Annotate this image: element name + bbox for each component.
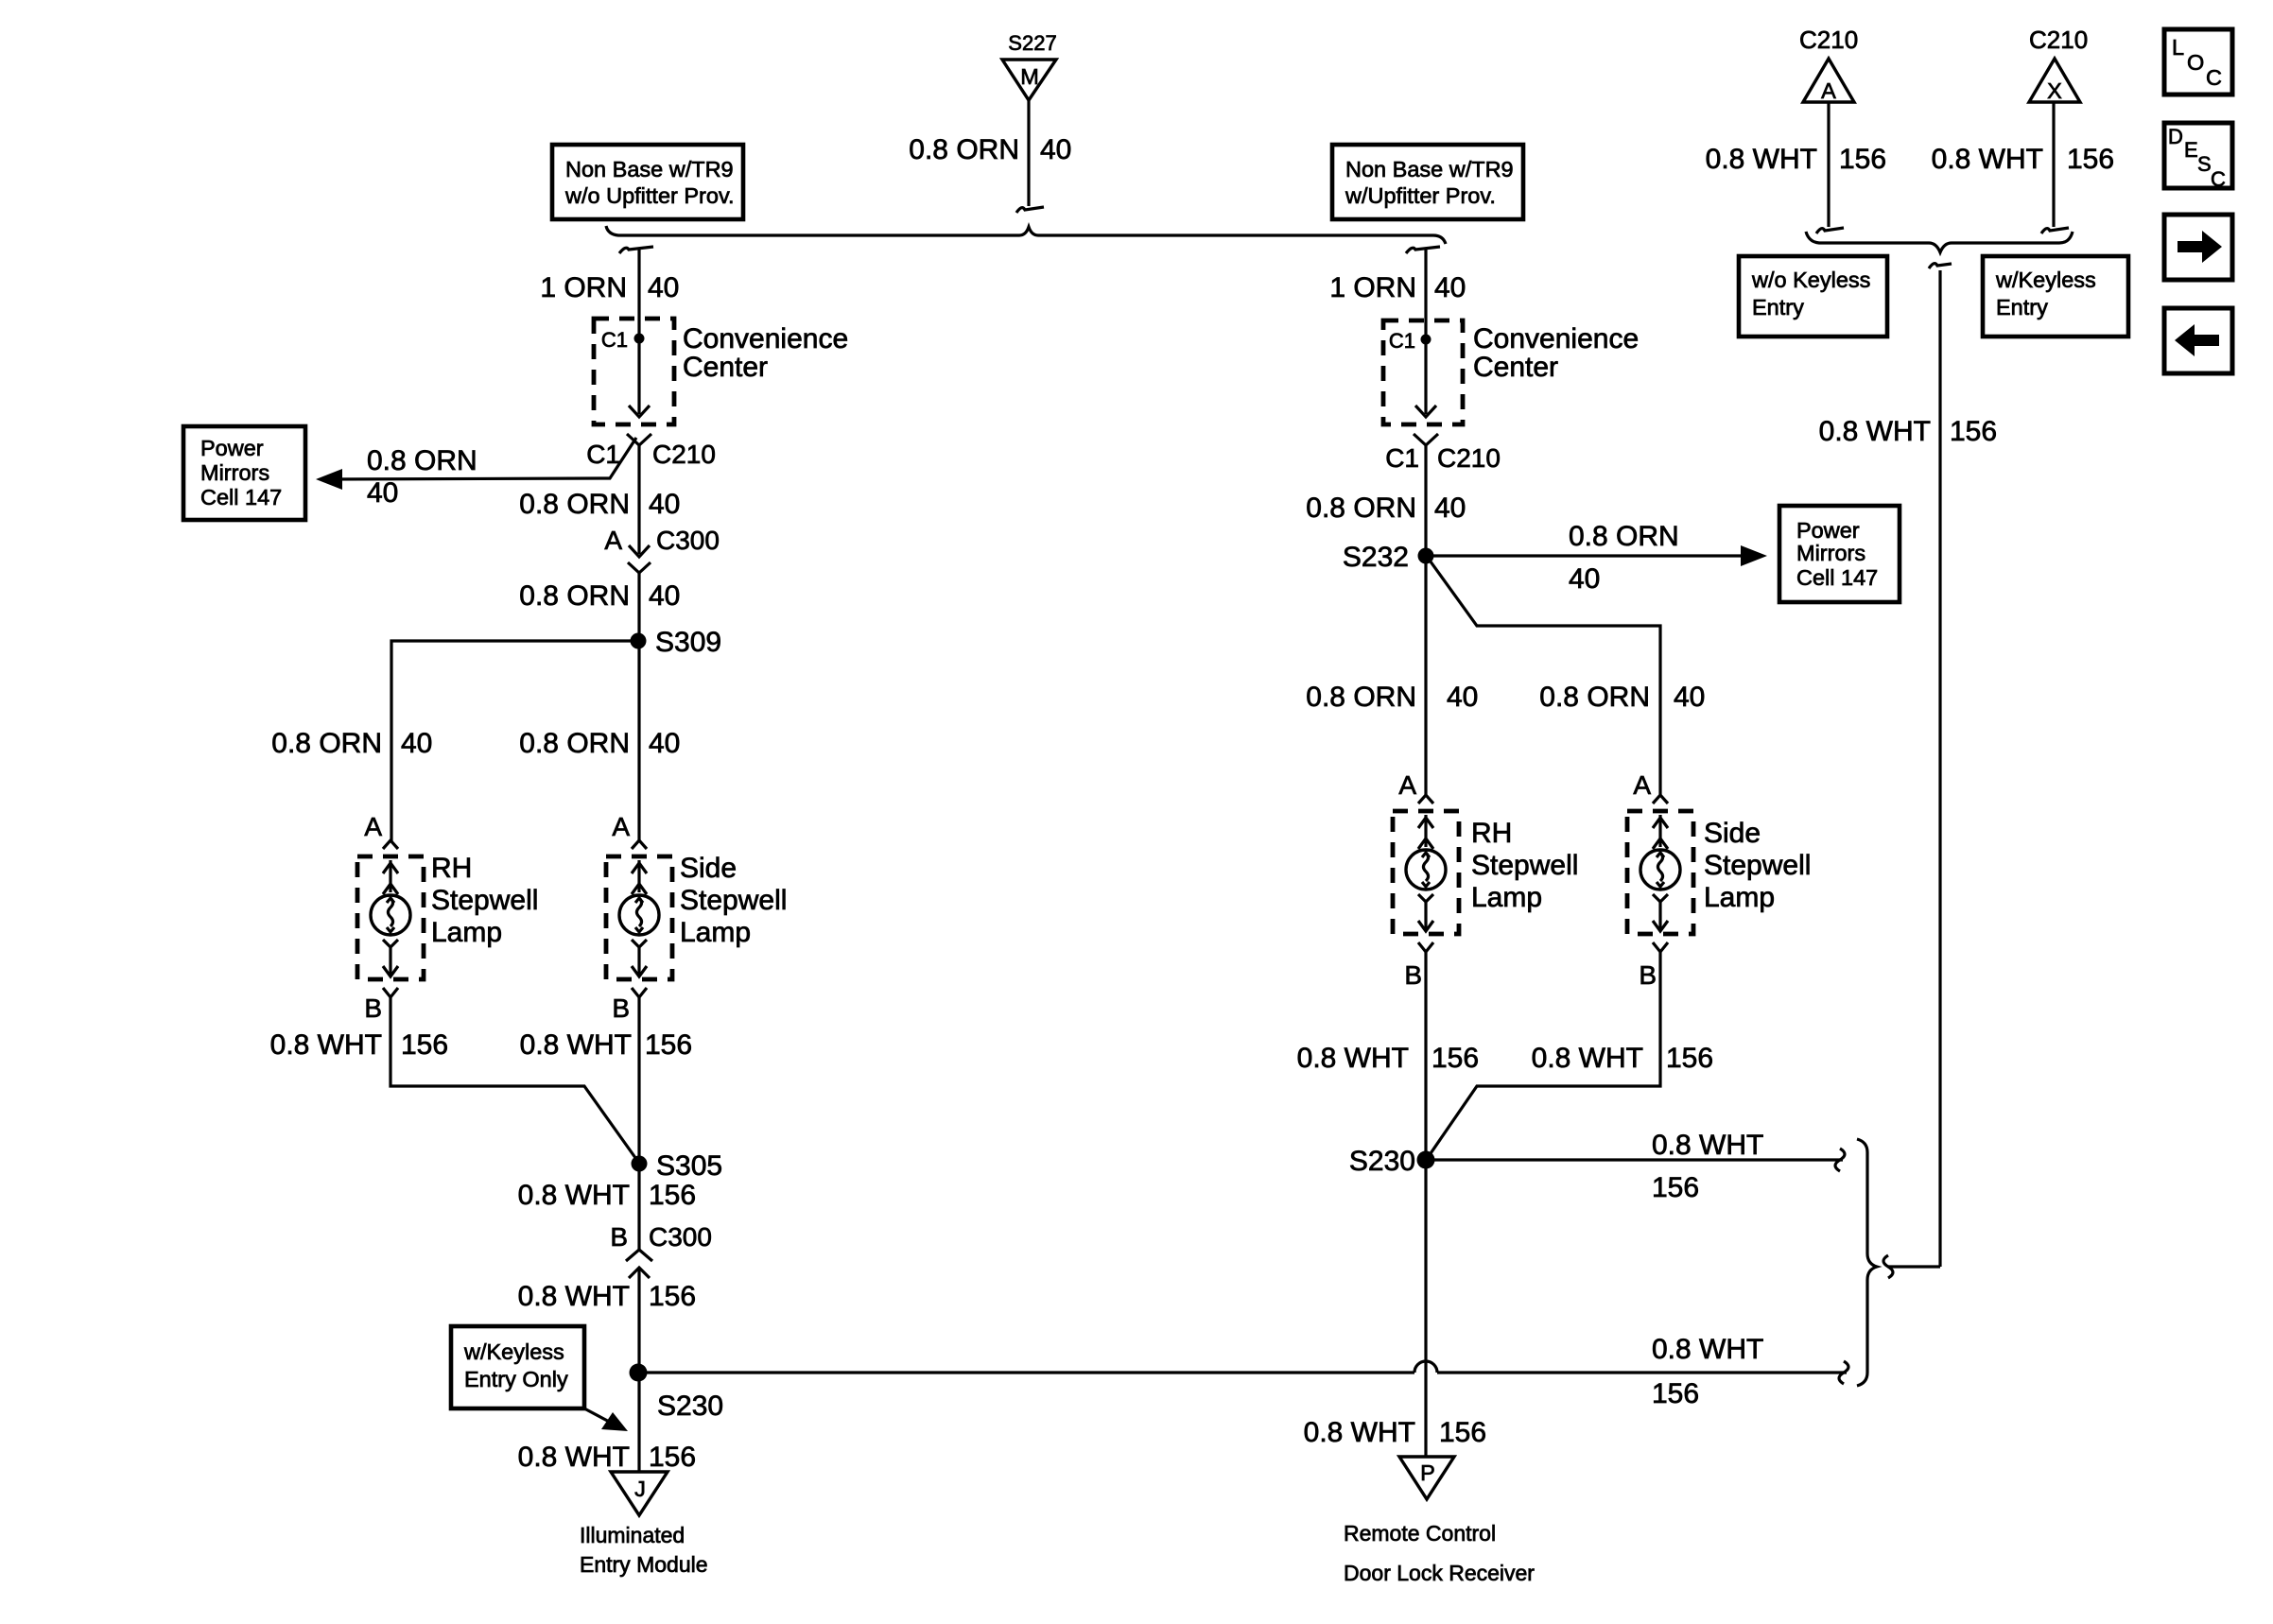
wire label 1 ORN 40 (right) bbox=[1329, 272, 1466, 303]
svg-text:0.8 WHT: 0.8 WHT bbox=[1532, 1043, 1643, 1074]
svg-text:S309: S309 bbox=[655, 627, 721, 658]
svg-text:Lamp: Lamp bbox=[1471, 882, 1542, 913]
svg-text:40: 40 bbox=[401, 728, 432, 759]
label Remote Control Door Lock Receiver bbox=[1344, 1521, 1535, 1585]
lamp RH Stepwell Lamp (left) bbox=[357, 856, 424, 979]
wire label 0.8 WHT 156 bbox=[518, 1180, 696, 1211]
wire from S230 right to brace bbox=[1426, 1149, 1845, 1171]
svg-text:Door Lock Receiver: Door Lock Receiver bbox=[1344, 1561, 1535, 1585]
option box w/Keyless Entry bbox=[1983, 256, 2128, 337]
wire label 0.8 WHT 156 bbox=[518, 1281, 696, 1312]
wire: S309 horizontal to left sub-branch corner bbox=[391, 641, 638, 841]
svg-text:0.8 ORN: 0.8 ORN bbox=[909, 134, 1019, 165]
wire: left branch 1 ORN down to convenience center bbox=[637, 250, 640, 320]
box Power Mirrors Cell 147 (right) bbox=[1779, 506, 1900, 602]
svg-text:156: 156 bbox=[1439, 1417, 1486, 1448]
svg-text:Mirrors: Mirrors bbox=[1796, 541, 1865, 565]
svg-text:Stepwell: Stepwell bbox=[431, 885, 538, 916]
svg-text:156: 156 bbox=[1950, 416, 1997, 447]
svg-text:J: J bbox=[634, 1477, 646, 1501]
svg-text:0.8 WHT: 0.8 WHT bbox=[518, 1281, 630, 1312]
svg-text:Lamp: Lamp bbox=[680, 917, 751, 948]
svg-text:P: P bbox=[1420, 1460, 1435, 1485]
svg-text:0.8 WHT: 0.8 WHT bbox=[1304, 1417, 1415, 1448]
wire label 0.8 WHT / 156 (upper right run) bbox=[1652, 1130, 1763, 1203]
branch wire to Power Mirrors (left) with arrowhead bbox=[316, 438, 636, 490]
component label Convenience Center (right) bbox=[1473, 323, 1639, 383]
svg-text:A: A bbox=[612, 812, 630, 841]
svg-text:0.8 WHT: 0.8 WHT bbox=[518, 1442, 630, 1473]
svg-text:40: 40 bbox=[1040, 134, 1071, 165]
svg-text:Remote Control: Remote Control bbox=[1344, 1521, 1496, 1546]
wire label 0.8 ORN / 40 (left power mirrors) bbox=[367, 445, 477, 509]
svg-text:Center: Center bbox=[683, 352, 768, 383]
reference icon box DESC bbox=[2164, 123, 2232, 191]
svg-text:A: A bbox=[1633, 770, 1651, 800]
svg-text:Cell 147: Cell 147 bbox=[1796, 565, 1878, 590]
label Illuminated Entry Module bbox=[580, 1523, 708, 1577]
svg-text:w/Keyless: w/Keyless bbox=[463, 1339, 564, 1364]
wire label 1 ORN 40 bbox=[540, 272, 679, 303]
svg-text:40: 40 bbox=[367, 477, 398, 509]
svg-text:Entry Module: Entry Module bbox=[580, 1552, 708, 1577]
right branch crimp symbol bbox=[1406, 247, 1440, 253]
svg-text:40: 40 bbox=[1447, 682, 1478, 713]
wire: C300 down to S230 bbox=[637, 1268, 640, 1373]
connector C1 / C210 (left) bbox=[586, 434, 716, 469]
svg-text:C: C bbox=[2211, 167, 2226, 191]
wire label 0.8 WHT 156 (left main) bbox=[520, 1029, 692, 1061]
svg-text:0.8 ORN: 0.8 ORN bbox=[1569, 521, 1679, 552]
svg-text:0.8 WHT: 0.8 WHT bbox=[1706, 144, 1817, 175]
svg-text:Power: Power bbox=[200, 436, 264, 460]
svg-text:40: 40 bbox=[648, 272, 679, 303]
svg-text:0.8 ORN: 0.8 ORN bbox=[519, 580, 630, 612]
pin A (side stepwell lamp right) bbox=[1633, 770, 1668, 803]
label Side Stepwell Lamp (left) bbox=[680, 853, 787, 948]
connector C1 / C210 (right) bbox=[1385, 434, 1501, 473]
svg-text:w/Upfitter Prov.: w/Upfitter Prov. bbox=[1345, 183, 1496, 208]
svg-text:0.8 WHT: 0.8 WHT bbox=[520, 1029, 632, 1061]
svg-text:40: 40 bbox=[649, 489, 680, 520]
svg-text:C1: C1 bbox=[601, 328, 628, 352]
svg-text:Power: Power bbox=[1796, 518, 1860, 543]
svg-text:B: B bbox=[1404, 960, 1422, 990]
svg-text:156: 156 bbox=[1666, 1043, 1713, 1074]
wire from triangle A down bbox=[1816, 102, 1844, 233]
svg-text:RH: RH bbox=[1471, 818, 1512, 849]
svg-text:40: 40 bbox=[1674, 682, 1705, 713]
svg-text:S230: S230 bbox=[1349, 1146, 1415, 1177]
wire label 0.8 ORN 40 bbox=[519, 489, 680, 520]
svg-text:40: 40 bbox=[1434, 272, 1466, 303]
svg-text:RH: RH bbox=[431, 853, 472, 884]
wire: S230 down to J triangle bbox=[637, 1373, 640, 1472]
svg-text:Illuminated: Illuminated bbox=[580, 1523, 685, 1547]
svg-text:Entry: Entry bbox=[1996, 295, 2048, 320]
wire label 0.8 ORN 40 (left main) bbox=[519, 728, 680, 759]
svg-text:A: A bbox=[364, 812, 382, 841]
svg-text:0.8 WHT: 0.8 WHT bbox=[1652, 1130, 1763, 1161]
svg-text:156: 156 bbox=[2067, 144, 2114, 175]
svg-text:0.8 ORN: 0.8 ORN bbox=[1306, 682, 1416, 713]
splice S232 bbox=[1343, 542, 1434, 573]
pin A (side stepwell lamp left) bbox=[612, 812, 647, 849]
lamp Side Stepwell Lamp (left) bbox=[606, 856, 672, 979]
svg-text:Side: Side bbox=[680, 853, 737, 884]
svg-text:0.8 ORN: 0.8 ORN bbox=[519, 728, 630, 759]
svg-text:C210: C210 bbox=[2029, 26, 2088, 54]
wire label 0.8 ORN 40 (right sub) bbox=[1539, 682, 1705, 713]
svg-text:0.8 WHT: 0.8 WHT bbox=[1819, 416, 1931, 447]
wire label 0.8 WHT 156 (triangle A) bbox=[1706, 144, 1886, 175]
svg-text:S232: S232 bbox=[1343, 542, 1409, 573]
curl right of brace cusp bbox=[1883, 1255, 1893, 1278]
wire: C300 to S309 bbox=[637, 573, 640, 643]
brace joining keyless options under triangles bbox=[1806, 232, 2073, 252]
svg-text:40: 40 bbox=[1569, 563, 1600, 595]
svg-text:C210: C210 bbox=[652, 440, 716, 469]
wire: vertical from brace down right side bbox=[1938, 270, 1941, 1267]
wire label 0.8 ORN 40 bbox=[519, 580, 680, 612]
wire label 0.8 WHT 156 (to P) bbox=[1304, 1417, 1486, 1448]
arrow wire S232 to Power Mirrors (right) bbox=[1426, 545, 1767, 566]
wire label 0.8 ORN / 40 (right power mirrors) bbox=[1569, 521, 1679, 595]
svg-text:C210: C210 bbox=[1437, 443, 1501, 473]
pin B (RH stepwell lamp left) bbox=[364, 988, 398, 1023]
brace collecting 0.8 WHT runs (bottom right) bbox=[1857, 1139, 1877, 1386]
svg-text:156: 156 bbox=[649, 1442, 696, 1473]
svg-text:0.8 WHT: 0.8 WHT bbox=[1297, 1043, 1409, 1074]
label RH Stepwell Lamp (left) bbox=[431, 853, 538, 948]
wire label 0.8 WHT 156 (left sub) bbox=[270, 1029, 448, 1061]
wire label 0.8 WHT 156 (right vertical) bbox=[1819, 416, 1997, 447]
wire label 0.8 ORN 40 (right main) bbox=[1306, 682, 1478, 713]
wire label 0.8 ORN 40 (left sub-branch) bbox=[271, 728, 432, 759]
wire: S230 right down to P triangle bbox=[1424, 1160, 1427, 1457]
option box: Non Base w/TR9 w/o Upfitter Prov. bbox=[552, 145, 743, 219]
component label Convenience Center (left) bbox=[683, 323, 848, 383]
svg-text:156: 156 bbox=[401, 1029, 448, 1061]
svg-text:C1: C1 bbox=[1389, 329, 1415, 353]
svg-text:S227: S227 bbox=[1008, 31, 1056, 55]
svg-text:1 ORN: 1 ORN bbox=[540, 272, 627, 303]
wire: right column C210 to S232 bbox=[1424, 445, 1427, 556]
svg-text:D: D bbox=[2168, 125, 2183, 148]
wire: S232 diagonal branch to right sub-column bbox=[1428, 558, 1660, 796]
svg-text:156: 156 bbox=[1839, 144, 1886, 175]
svg-text:156: 156 bbox=[649, 1180, 696, 1211]
lamp RH Stepwell Lamp (right) bbox=[1393, 811, 1459, 934]
svg-text:E: E bbox=[2184, 138, 2198, 162]
svg-text:Convenience: Convenience bbox=[683, 323, 848, 354]
wire: left column below C210 bbox=[637, 445, 640, 554]
wire: RH lamp B down, right, diagonal to S305 bbox=[390, 997, 638, 1162]
svg-text:M: M bbox=[1020, 64, 1039, 89]
svg-text:C: C bbox=[2206, 65, 2222, 90]
svg-text:Cell 147: Cell 147 bbox=[200, 485, 282, 510]
svg-text:C1: C1 bbox=[1385, 443, 1419, 473]
wire from triangle X down bbox=[2041, 102, 2069, 233]
svg-text:Stepwell: Stepwell bbox=[1471, 850, 1578, 881]
splice S230 (right) bbox=[1349, 1146, 1435, 1177]
wire: right main S232 down to lamp A bbox=[1424, 556, 1427, 796]
svg-text:156: 156 bbox=[1652, 1378, 1699, 1409]
connector S227 triangle M bbox=[1002, 60, 1056, 100]
svg-text:A: A bbox=[604, 526, 622, 555]
svg-text:40: 40 bbox=[1434, 492, 1466, 524]
wire from S227 down to bus bbox=[1016, 100, 1044, 213]
svg-text:0.8 WHT: 0.8 WHT bbox=[518, 1180, 630, 1211]
pin B (RH stepwell lamp right) bbox=[1404, 942, 1433, 990]
svg-text:C210: C210 bbox=[1799, 26, 1858, 54]
curl below brace cusp bbox=[1929, 264, 1952, 268]
connector C210 triangle A bbox=[1803, 59, 1854, 103]
svg-text:S: S bbox=[2197, 152, 2212, 176]
convenience center (right), dashed component box bbox=[1383, 320, 1463, 424]
reference icon box right arrow bbox=[2164, 215, 2232, 280]
svg-text:C300: C300 bbox=[649, 1222, 712, 1252]
svg-text:w/o Upfitter Prov.: w/o Upfitter Prov. bbox=[564, 183, 734, 208]
svg-text:S305: S305 bbox=[656, 1150, 722, 1182]
svg-text:B: B bbox=[364, 993, 382, 1023]
svg-text:C300: C300 bbox=[656, 526, 720, 555]
connector P triangle (Remote Control Door Lock Receiver) bbox=[1399, 1457, 1454, 1499]
pin B (side stepwell lamp right) bbox=[1639, 942, 1668, 990]
connector C210 triangle X bbox=[2029, 59, 2080, 103]
svg-text:L: L bbox=[2172, 35, 2184, 60]
svg-text:0.8 ORN: 0.8 ORN bbox=[1306, 492, 1416, 524]
svg-text:0.8 WHT: 0.8 WHT bbox=[1932, 144, 2043, 175]
svg-text:B: B bbox=[1639, 960, 1657, 990]
splice S309 bbox=[631, 627, 722, 658]
connector B C300 (left bottom) bbox=[610, 1222, 712, 1278]
pin A (RH stepwell lamp right) bbox=[1398, 770, 1433, 803]
svg-text:Lamp: Lamp bbox=[431, 917, 502, 948]
svg-text:Side: Side bbox=[1704, 818, 1761, 849]
long wire from S230 left to right brace (with crossover hump) bbox=[638, 1361, 1848, 1384]
option box w/Keyless Entry Only with pointer arrow bbox=[451, 1326, 628, 1431]
svg-text:0.8 ORN: 0.8 ORN bbox=[367, 445, 477, 476]
wire label 0.8 WHT 156 bbox=[518, 1442, 696, 1473]
wire: RH right lamp B down to S230 bbox=[1424, 952, 1427, 1160]
svg-text:w/Keyless: w/Keyless bbox=[1995, 268, 2096, 292]
wire: S305 down to C300 bbox=[637, 1164, 640, 1250]
option box: Non Base w/TR9 w/Upfitter Prov. bbox=[1332, 145, 1523, 219]
wire: right branch 1 ORN down bbox=[1424, 250, 1427, 321]
label Side Stepwell Lamp (right) bbox=[1704, 818, 1811, 913]
lamp Side Stepwell Lamp (right) bbox=[1627, 811, 1693, 934]
wire: main column S309 down to lamp A bbox=[637, 641, 640, 841]
wire link from brace to right vertical bbox=[1888, 1265, 1940, 1268]
box Power Mirrors Cell 147 (left) bbox=[183, 426, 305, 520]
splice S230 (left) bbox=[630, 1364, 724, 1423]
svg-text:B: B bbox=[612, 993, 630, 1023]
svg-text:156: 156 bbox=[1652, 1172, 1699, 1203]
svg-text:Convenience: Convenience bbox=[1473, 323, 1639, 354]
svg-text:Stepwell: Stepwell bbox=[1704, 850, 1811, 881]
svg-text:Entry: Entry bbox=[1752, 295, 1804, 320]
svg-text:A: A bbox=[1821, 78, 1836, 103]
svg-text:0.8 WHT: 0.8 WHT bbox=[1652, 1334, 1763, 1365]
splice S305 bbox=[632, 1150, 723, 1182]
svg-text:S230: S230 bbox=[657, 1391, 723, 1422]
wire: side right lamp B down, left, diagonal to S230 bbox=[1427, 952, 1660, 1159]
svg-text:156: 156 bbox=[649, 1281, 696, 1312]
svg-text:0.8 ORN: 0.8 ORN bbox=[1539, 682, 1650, 713]
svg-text:156: 156 bbox=[1431, 1043, 1479, 1074]
svg-text:Entry Only: Entry Only bbox=[464, 1367, 568, 1391]
svg-text:Lamp: Lamp bbox=[1704, 882, 1775, 913]
reference icon box LOC bbox=[2164, 29, 2232, 95]
connector J triangle (Illuminated Entry Module) bbox=[611, 1472, 668, 1515]
svg-text:40: 40 bbox=[649, 728, 680, 759]
svg-text:A: A bbox=[1398, 770, 1416, 800]
svg-text:40: 40 bbox=[649, 580, 680, 612]
wire label 0.8 ORN 40 bbox=[909, 134, 1071, 165]
left branch crimp symbol bbox=[619, 247, 653, 253]
convenience center (left), dashed component box bbox=[594, 319, 674, 424]
label RH Stepwell Lamp (right) bbox=[1471, 818, 1578, 913]
svg-text:Center: Center bbox=[1473, 352, 1558, 383]
wire label 0.8 WHT / 156 (lower right run) bbox=[1652, 1334, 1763, 1409]
option box w/o Keyless Entry bbox=[1739, 256, 1887, 337]
svg-text:C1: C1 bbox=[586, 440, 620, 469]
wire: side lamp B down to S305 bbox=[637, 997, 640, 1164]
reference icon box left arrow bbox=[2164, 308, 2232, 373]
svg-text:0.8 ORN: 0.8 ORN bbox=[519, 489, 630, 520]
wire label 0.8 WHT 156 (right sub) bbox=[1532, 1043, 1713, 1074]
svg-text:Stepwell: Stepwell bbox=[680, 885, 787, 916]
svg-text:0.8 ORN: 0.8 ORN bbox=[271, 728, 382, 759]
pin A (RH stepwell lamp left) bbox=[364, 812, 398, 849]
svg-text:B: B bbox=[610, 1222, 628, 1252]
svg-text:Non Base w/TR9: Non Base w/TR9 bbox=[565, 157, 734, 181]
svg-text:1 ORN: 1 ORN bbox=[1329, 272, 1416, 303]
svg-text:X: X bbox=[2047, 78, 2062, 103]
svg-text:w/o Keyless: w/o Keyless bbox=[1751, 268, 1870, 292]
svg-text:Mirrors: Mirrors bbox=[200, 460, 269, 485]
wire label 0.8 ORN 40 (right) bbox=[1306, 492, 1466, 524]
svg-text:0.8 WHT: 0.8 WHT bbox=[270, 1029, 382, 1061]
connector A C300 (left) bbox=[604, 526, 720, 573]
svg-text:O: O bbox=[2187, 50, 2204, 75]
svg-text:Non Base w/TR9: Non Base w/TR9 bbox=[1345, 157, 1514, 181]
wire label 0.8 WHT 156 (triangle X) bbox=[1932, 144, 2114, 175]
wire label 0.8 WHT 156 (right main) bbox=[1297, 1043, 1479, 1074]
bus brace joining left and right option branches bbox=[606, 226, 1446, 244]
pin B (side stepwell lamp left) bbox=[612, 988, 647, 1023]
svg-text:156: 156 bbox=[645, 1029, 692, 1061]
